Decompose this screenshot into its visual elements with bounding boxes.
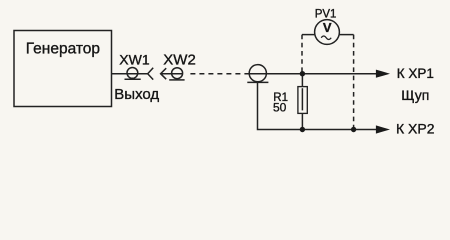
arrow to XP1: [376, 70, 390, 78]
wire resistor branch R1 top lead: [301, 74, 303, 87]
svg-text:PV1: PV1: [315, 9, 337, 21]
resistor R1 body: [298, 87, 307, 114]
node junction dot bottom rail under R1: [300, 127, 305, 132]
wire PV1 right lead: [339, 34, 354, 36]
svg-text:К ХР1: К ХР1: [397, 66, 434, 81]
wire PV1 left lead: [302, 34, 315, 36]
svg-text:Щуп: Щуп: [401, 87, 429, 103]
wire coaxial cable (dashed) XW2 to probe connector: [187, 73, 249, 75]
svg-text:V: V: [323, 20, 332, 35]
svg-text:50: 50: [273, 101, 287, 115]
wire probe connector shield to bottom rail: [258, 82, 377, 129]
svg-text:XW1: XW1: [119, 52, 150, 68]
wire generator output through XW1 to fork: [112, 73, 148, 75]
svg-text:XW2: XW2: [163, 51, 196, 68]
svg-text:Выход: Выход: [114, 86, 159, 103]
wire resistor bottom lead: [301, 113, 303, 129]
svg-text:К ХР2: К ХР2: [396, 121, 435, 137]
svg-text:Генератор: Генератор: [26, 41, 100, 58]
wire inside resistor body artifact: [301, 88, 303, 110]
connector probe input: [247, 65, 268, 83]
connector XW1: [125, 68, 154, 80]
node A junction dot top rail: [300, 71, 305, 76]
wire top rail to XP1 arrow: [249, 73, 377, 75]
wire PV1 right lead dashed drop to bottom rail node B: [353, 35, 355, 130]
wire PV1 left lead dashed drop to node A: [301, 35, 303, 74]
node B junction dot bottom rail: [351, 127, 356, 132]
voltmeter PV1: [315, 20, 340, 45]
generator box G1: [14, 31, 112, 107]
connector XW2: [161, 68, 185, 80]
arrow to XP2: [376, 125, 390, 133]
